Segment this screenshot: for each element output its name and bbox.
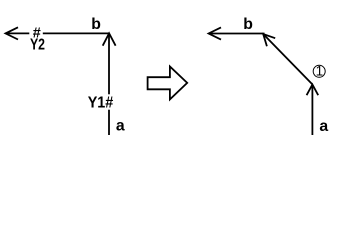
svg-text:a: a [116, 118, 125, 135]
arrowhead: vertical arrow pointing up at chamfer start [307, 85, 319, 96]
arrowhead: Y1 axis arrow pointing up at corner b [103, 33, 116, 45]
wire: left figure vertical segment (a to b), broken for # label [108, 33, 110, 135]
wire: right figure vertical segment (from a) [311, 85, 313, 135]
circled 1: chamfer segment callout [313, 64, 325, 79]
wire: right figure diagonal chamfer segment [263, 34, 312, 84]
arrowhead: right figure pointing left [209, 27, 221, 39]
arrowhead: Y2 axis arrow pointing left [6, 27, 19, 39]
block arrow: transformation indicator [148, 67, 188, 100]
svg-text:a: a [319, 118, 328, 135]
svg-text:b: b [91, 16, 101, 33]
svg-text:Y1#: Y1# [88, 95, 114, 112]
svg-text:b: b [243, 16, 253, 33]
wire: right figure horizontal segment (b arrow) [209, 33, 265, 35]
svg-text:1: 1 [316, 64, 324, 79]
wire: left figure horizontal segment (b to Y2 arrow), broken for # label [6, 32, 110, 34]
svg-text:Y2: Y2 [30, 37, 45, 54]
arrowhead: diagonal arrow pointing up-left at b junction [263, 34, 275, 46]
